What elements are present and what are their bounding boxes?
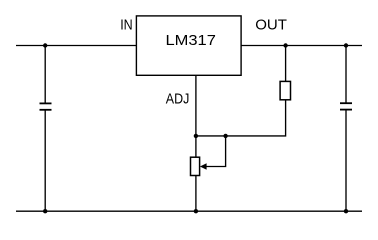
capacitor C1 (input, left) <box>40 103 52 109</box>
node wiper branch junction <box>223 134 227 138</box>
wire bottom rail (ground return) <box>16 210 362 212</box>
resistor R1 (feedback, vertical box) <box>280 81 290 99</box>
node ADJ / R1 row junction <box>194 134 198 138</box>
capacitor C2 (output, right) <box>340 103 352 109</box>
wire right capacitor top lead <box>345 46 347 104</box>
wire IN feed (top-left rail) <box>16 45 136 47</box>
svg-text:IN: IN <box>120 16 133 33</box>
wire potentiometer bottom lead <box>195 176 197 212</box>
node bottom rail / C1 junction <box>43 209 47 213</box>
wire left capacitor top lead <box>44 46 46 104</box>
potentiometer wiper arrowhead <box>200 163 207 170</box>
op-amp box: regulator U1 LM317 <box>136 16 241 75</box>
svg-text:OUT: OUT <box>255 16 287 33</box>
node bottom rail / C2 junction <box>344 209 348 213</box>
wire left capacitor bottom lead <box>44 110 46 211</box>
wire right capacitor bottom lead <box>345 110 347 212</box>
node top rail / R1 junction <box>283 43 287 47</box>
wire ADJ pin down from regulator <box>195 75 197 157</box>
wire wiper connection from node down and left <box>205 136 226 167</box>
potentiometer R2 body <box>191 157 200 175</box>
wire resistor bottom lead with bend to node row <box>196 100 286 136</box>
wire resistor top lead <box>285 46 287 82</box>
node bottom rail / pot junction <box>194 209 198 213</box>
node top rail / C2 junction <box>344 43 348 47</box>
svg-text:LM317: LM317 <box>166 32 216 49</box>
node top rail / C1 junction <box>43 43 47 47</box>
svg-text:ADJ: ADJ <box>166 91 190 108</box>
wire OUT feed (top-right rail) <box>241 45 362 47</box>
